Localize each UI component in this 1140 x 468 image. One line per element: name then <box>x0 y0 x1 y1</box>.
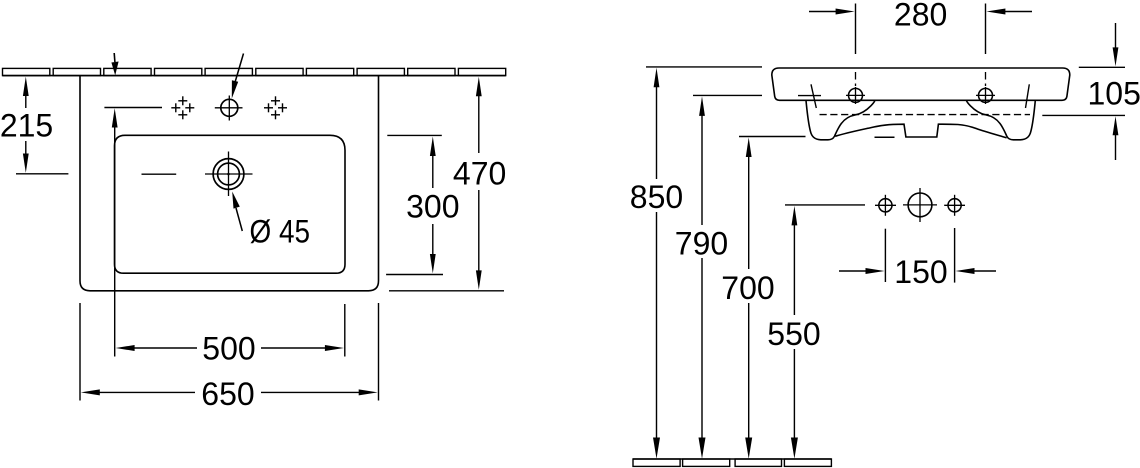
dimension 550 <box>767 205 865 459</box>
right tap hole dashed centerline <box>985 72 987 86</box>
optional tap hole marker right <box>264 96 287 119</box>
dimension 105 <box>1042 23 1140 160</box>
svg-text:280: 280 <box>894 0 947 32</box>
leader arrow from Ø 45 label to drain <box>232 192 242 232</box>
svg-text:215: 215 <box>0 108 53 144</box>
dimension 470 <box>389 77 506 291</box>
dimension 300 <box>386 135 459 274</box>
left slant tick <box>811 84 816 108</box>
dimension 500 left extension with up arrow <box>112 108 118 356</box>
dimension 650 <box>80 303 379 412</box>
dimension 215 <box>0 77 68 174</box>
dimension 850 <box>630 67 762 459</box>
right tap hole (front view) <box>976 87 995 104</box>
floor hatching bars <box>633 459 831 466</box>
dimension 280 <box>809 0 1032 54</box>
lower fixing hole right <box>944 195 965 216</box>
right leg outline <box>966 100 1035 139</box>
floor line <box>633 458 831 460</box>
short hidden line segment <box>875 136 895 138</box>
svg-text:470: 470 <box>453 156 506 192</box>
left tap hole (front view) <box>846 87 865 104</box>
dimension 700 <box>721 137 805 459</box>
tap hole centerline <box>104 107 162 109</box>
rim outline <box>772 68 1070 100</box>
dimension 150 <box>839 228 996 290</box>
svg-text:700: 700 <box>721 270 774 306</box>
svg-text:650: 650 <box>201 376 254 412</box>
hidden dashed line <box>820 114 1031 116</box>
left leg outline <box>806 100 875 139</box>
wall hatching bars <box>3 68 506 75</box>
drain hole <box>205 152 253 197</box>
lower center hole <box>903 188 937 222</box>
basin outer outline <box>80 76 379 291</box>
drain centerline dash <box>142 173 177 175</box>
svg-text:550: 550 <box>767 316 820 352</box>
optional tap hole marker left <box>171 96 194 119</box>
basin inner bowl <box>115 135 346 273</box>
lower fixing hole left <box>875 195 896 216</box>
left tap hole dashed centerline <box>855 72 857 86</box>
svg-text:790: 790 <box>675 225 728 261</box>
right slant tick <box>1026 84 1030 108</box>
leader arrow to center tap hole <box>232 54 244 99</box>
dimension 790 <box>675 95 762 458</box>
svg-text:150: 150 <box>894 254 947 290</box>
rim inner short line <box>798 95 821 97</box>
underside profile with drain box <box>835 124 1006 138</box>
svg-text:Ø 45: Ø 45 <box>250 213 311 249</box>
svg-text:300: 300 <box>406 189 459 225</box>
svg-text:500: 500 <box>202 330 255 366</box>
svg-text:850: 850 <box>630 179 683 215</box>
center tap hole <box>215 96 243 121</box>
wall mounting leader arrow <box>111 53 118 75</box>
svg-text:105: 105 <box>1088 76 1140 112</box>
dimension 500 <box>116 304 345 366</box>
wall line <box>3 75 506 77</box>
